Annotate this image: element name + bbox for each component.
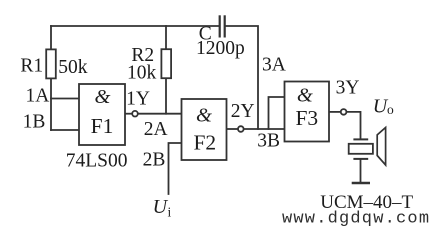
svg-text:&: & (297, 85, 313, 107)
resistor R1 (46, 49, 56, 78)
svg-text:1B: 1B (23, 112, 46, 133)
wire F3 output stub to bubble (329, 111, 340, 113)
wire from capacitor right plate to corner and down to 2Y net (226, 26, 258, 129)
output Uo (373, 96, 394, 118)
svg-text:&: & (196, 105, 212, 127)
transducer piezo top electrode (353, 138, 368, 140)
svg-text:3Y: 3Y (336, 77, 360, 98)
svg-text:1200p: 1200p (196, 38, 245, 59)
wire from top rail down to R1 top (50, 26, 52, 49)
wire node 2Y to F3 input 3B (244, 128, 284, 130)
resistor R2 (161, 49, 171, 78)
wire F2 output stub to bubble (227, 128, 238, 130)
wire top rail left of capacitor (51, 25, 219, 27)
wire branch from 2Y net up to F3 input 3A (269, 97, 285, 129)
svg-text:F2: F2 (193, 131, 216, 155)
svg-text:U: U (153, 196, 169, 218)
svg-text:74LS00: 74LS00 (66, 150, 128, 171)
wire node 3Y to transducer top (347, 112, 360, 139)
nand gate F3 (285, 82, 347, 142)
svg-text:50k: 50k (58, 57, 88, 78)
transducer crystal (349, 144, 373, 154)
capacitor C plates (220, 15, 225, 37)
svg-text:F1: F1 (91, 114, 114, 138)
wire from R1 bottom down to 1B input (50, 78, 52, 130)
nand gate F2 (182, 99, 244, 160)
wire from top rail down to R2 top (165, 26, 167, 49)
svg-text:o: o (387, 102, 394, 117)
transducer horn (377, 128, 385, 166)
svg-text:1A: 1A (25, 86, 49, 107)
wire F1 output stub to bubble (125, 113, 132, 115)
wire transducer bottom plate to ground (360, 159, 362, 182)
ground (352, 182, 370, 184)
svg-text:R1: R1 (20, 55, 43, 76)
wire 1A input stub (51, 98, 79, 100)
wire input Ui to F2 input 2B (169, 143, 182, 194)
svg-text:&: & (95, 86, 111, 108)
svg-text:10k: 10k (127, 62, 157, 83)
svg-text:1Y: 1Y (126, 88, 150, 109)
svg-text:F3: F3 (295, 106, 318, 130)
svg-text:www.dgdqw.com: www.dgdqw.com (282, 209, 430, 228)
svg-text:2Y: 2Y (231, 101, 255, 122)
wire 1B input stub (51, 129, 79, 131)
svg-text:2A: 2A (144, 119, 168, 140)
input Ui (153, 196, 172, 220)
transducer piezo bottom electrode (353, 158, 368, 160)
svg-text:3A: 3A (262, 54, 286, 75)
nand gate F1 (79, 84, 138, 145)
svg-text:2B: 2B (143, 150, 166, 171)
wire node 1Y to F2 input 2A (138, 113, 181, 115)
svg-text:i: i (168, 205, 172, 220)
wire from R2 bottom to 1Y net junction (165, 78, 167, 114)
svg-text:3B: 3B (257, 131, 280, 152)
